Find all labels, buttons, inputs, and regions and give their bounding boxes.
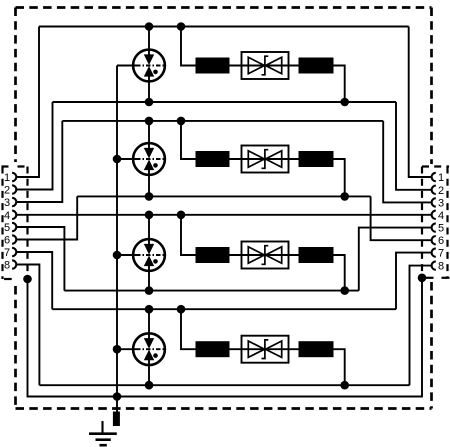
gas discharge tube F3 bottom electrode arrow: [145, 257, 154, 266]
wire: terminal 6 lead: [16, 196, 77, 239]
left terminal block dashed box (left edge): [1, 167, 3, 280]
svg-text:7: 7: [4, 247, 10, 259]
PE terminal (filled): [113, 412, 120, 427]
ground symbol bar 1: [89, 432, 117, 435]
svg-text:2: 2: [4, 185, 10, 197]
wire: terminal 5 lead: [16, 227, 64, 291]
wire: terminal 3' lead: [383, 121, 431, 202]
node: resistor feed junction channel 3: [177, 211, 186, 220]
terminal 3 contact symbol: [12, 198, 16, 206]
gas discharge tube F3 top electrode arrow: [145, 244, 154, 253]
resistor R4b: [299, 341, 334, 357]
node: ground bus / GDT F4 centre: [113, 345, 122, 354]
terminal 3' contact symbol: [432, 198, 436, 206]
node: resistor feed junction channel 1: [177, 22, 186, 31]
svg-text:1: 1: [438, 172, 444, 184]
enclosure dashed border (right edge lower): [430, 282, 433, 409]
node: ground bus / GDT F3 centre: [113, 251, 122, 260]
wire: resistor chain channel 2: [230, 158, 299, 160]
channel 4 bottom rail wire: [39, 384, 409, 386]
channel 4 top rail wire: [52, 308, 396, 310]
gas discharge tube F4 centre electrode line (dash-dot part): [136, 348, 166, 350]
wire: resistor feed drop channel 1: [181, 27, 196, 66]
terminal 7 contact symbol: [12, 248, 16, 256]
suppressor diode V4 box: [242, 336, 289, 363]
wire: GDT F2 vertical (lower): [148, 169, 150, 197]
node: right terminal block shield junction: [418, 274, 427, 283]
suppressor diode V3 centre zener bar: [262, 246, 269, 265]
svg-text:2: 2: [438, 185, 444, 197]
gas discharge tube F1 centre electrode line (dash-dot part): [136, 65, 166, 67]
svg-text:1: 1: [4, 172, 10, 184]
terminal 7' contact symbol: [432, 248, 436, 256]
wire: GDT F1 vertical (lower): [148, 75, 150, 102]
suppressor diode V1 left triangle: [248, 57, 264, 73]
gas discharge tube F2 top electrode arrow: [145, 148, 154, 157]
svg-text:6: 6: [438, 235, 444, 247]
wire: resistor chain channel 3: [230, 254, 299, 256]
enclosure dashed border (left edge upper): [14, 8, 17, 163]
svg-text:3: 3: [4, 197, 10, 209]
svg-text:3: 3: [438, 197, 444, 209]
gas discharge tube F1 top electrode arrow: [145, 55, 154, 64]
svg-text:5: 5: [4, 222, 10, 234]
terminal 2' contact symbol: [432, 186, 436, 194]
right terminal block dashed box (bottom edge, dash 2): [442, 277, 450, 279]
terminal 8' contact symbol: [432, 261, 436, 269]
suppressor diode V2 centre zener bar: [262, 150, 269, 169]
wire: terminal 5' lead: [359, 228, 432, 291]
wire: GDT F3 vertical (upper): [148, 215, 150, 246]
gas discharge tube F3 centre electrode line (dash-dot part): [136, 254, 166, 256]
node: ground bus / GDT F2 centre: [113, 155, 122, 164]
node: GDT F3 bottom junction: [145, 286, 154, 295]
node: resistor output junction channel 4: [340, 381, 349, 390]
wire: resistor feed drop channel 2: [181, 121, 196, 159]
svg-text:8: 8: [4, 260, 10, 272]
wire: terminal 8' lead: [410, 266, 432, 386]
node: resistor output junction channel 2: [340, 192, 349, 201]
resistor R3b: [299, 247, 334, 263]
suppressor diode V3 box: [242, 242, 289, 269]
wire: terminal 2' lead: [396, 102, 432, 190]
suppressor diode V4 right triangle: [266, 341, 282, 357]
node: PE junction: [113, 392, 122, 401]
enclosure dashed border (left edge lower): [14, 286, 17, 409]
svg-text:7: 7: [438, 248, 444, 260]
suppressor diode V3 right triangle: [266, 247, 282, 263]
terminal 5' contact symbol: [432, 223, 436, 231]
wire: GDT F2 vertical (upper): [148, 121, 150, 150]
gas discharge tube F3 spark gap dot: [153, 259, 158, 264]
gas discharge tube F4 top electrode arrow: [145, 339, 154, 348]
gas discharge tube F1 centre electrode line (solid part to bus): [117, 65, 136, 67]
enclosure dashed border (bottom edge): [16, 407, 432, 410]
svg-text:5: 5: [438, 223, 444, 235]
wire: terminal 1' lead: [409, 27, 432, 178]
wire: PE drop: [116, 397, 118, 413]
wire: GDT F4 vertical (upper): [148, 309, 150, 340]
terminal 6 contact symbol: [12, 235, 16, 243]
right terminal block dashed box (right edge): [446, 167, 448, 278]
suppressor diode V1 centre zener bar: [262, 56, 269, 75]
wire: terminal 6' lead: [371, 196, 432, 240]
wire: terminal 3 lead: [16, 121, 62, 202]
gas discharge tube F1 bottom electrode arrow: [145, 67, 154, 76]
wire: resistor feed drop channel 4: [181, 309, 196, 349]
channel 2 bottom rail wire: [77, 195, 370, 197]
node: GDT F1 bottom junction: [145, 98, 154, 107]
gas discharge tube F4 spark gap dot: [153, 353, 158, 358]
channel 2 top rail wire: [62, 120, 383, 122]
node: GDT F1 top junction: [145, 22, 154, 31]
right terminal block dashed box (bottom edge, dash 1): [425, 277, 434, 279]
node: resistor feed junction channel 2: [177, 117, 186, 126]
terminal 1' contact symbol: [432, 173, 436, 181]
wire: GDT F3 vertical (lower): [148, 265, 150, 291]
channel 1 top rail wire: [39, 26, 409, 28]
ground bus vertical wire: [116, 66, 118, 397]
wire: resistor chain channel 1: [230, 65, 299, 67]
wire: GDT F1 vertical (upper): [148, 27, 150, 57]
gas discharge tube F2 (circle): [133, 143, 165, 175]
suppressor diode V2 right triangle: [266, 151, 282, 167]
resistor R3a: [196, 247, 230, 263]
wire: terminal 8 lead: [16, 265, 39, 386]
suppressor diode V4 left triangle: [248, 341, 264, 357]
terminal 4' contact symbol: [432, 211, 436, 219]
wire: terminal 7' lead: [396, 253, 432, 310]
suppressor diode V2 left triangle: [248, 151, 264, 167]
gas discharge tube F4 centre electrode line (solid part to bus): [117, 348, 136, 350]
node: resistor output junction channel 3: [340, 286, 349, 295]
wire: terminal 1 lead: [16, 27, 39, 178]
node: resistor output junction channel 1: [340, 98, 349, 107]
svg-text:8: 8: [438, 261, 444, 273]
node: GDT F4 top junction: [145, 305, 154, 314]
right terminal block dashed box (left edge): [421, 167, 423, 278]
gas discharge tube F2 centre electrode line (solid part to bus): [117, 158, 136, 160]
node: left terminal block shield junction: [23, 275, 32, 284]
channel 3 top rail wire: [16, 214, 431, 216]
node: GDT F4 bottom junction: [145, 381, 154, 390]
resistor R2b: [299, 151, 334, 167]
wire: resistor output channel 3: [334, 255, 345, 291]
wire: resistor feed drop channel 3: [181, 215, 196, 255]
left terminal block dashed box (bottom edge): [4, 278, 12, 280]
wire: terminal 2 lead: [16, 102, 52, 190]
gas discharge tube F1 (circle): [133, 50, 165, 82]
resistor R4a: [196, 341, 230, 357]
wire: resistor output channel 1: [334, 66, 345, 103]
suppressor diode V1 right triangle: [266, 57, 282, 73]
terminal 8 contact symbol: [12, 260, 16, 268]
left terminal block dashed box (right edge): [26, 167, 28, 280]
left terminal block dashed box (top edge): [2, 165, 28, 167]
suppressor diode V2 box: [242, 146, 289, 173]
svg-text:4: 4: [438, 210, 444, 222]
gas discharge tube F2 spark gap dot: [153, 163, 158, 168]
node: resistor feed junction channel 4: [177, 305, 186, 314]
enclosure dashed border (top edge): [16, 6, 432, 9]
gas discharge tube F4 bottom electrode arrow: [145, 351, 154, 360]
channel 1 bottom rail wire: [53, 101, 397, 103]
svg-text:4: 4: [4, 210, 10, 222]
gas discharge tube F1 spark gap dot: [153, 70, 158, 75]
wire: resistor output channel 2: [334, 159, 345, 196]
terminal 2 contact symbol: [12, 185, 16, 193]
terminal 5 contact symbol: [12, 223, 16, 231]
gas discharge tube F2 centre electrode line (dash-dot part): [136, 158, 166, 160]
wire: left shield drop: [28, 278, 423, 397]
svg-text:6: 6: [4, 235, 10, 247]
wire: resistor chain channel 4: [230, 348, 299, 350]
right terminal block dashed box (top edge): [422, 165, 449, 167]
ground symbol bar 3: [100, 444, 107, 447]
ground symbol stem: [101, 421, 103, 434]
node: GDT F2 bottom junction: [145, 192, 154, 201]
resistor R1b: [299, 58, 334, 74]
gas discharge tube F2 bottom electrode arrow: [145, 161, 154, 170]
suppressor diode V4 centre zener bar: [262, 340, 269, 359]
wire: terminal 7 lead: [16, 252, 52, 309]
gas discharge tube F3 (circle): [133, 239, 165, 271]
channel 3 bottom rail wire: [64, 290, 358, 292]
terminal 1 contact symbol: [12, 173, 16, 181]
node: GDT F2 top junction: [145, 117, 154, 126]
terminal 6' contact symbol: [432, 236, 436, 244]
terminal 4 contact symbol: [12, 211, 16, 219]
suppressor diode V1 box: [242, 52, 289, 79]
gas discharge tube F3 centre electrode line (solid part to bus): [117, 254, 136, 256]
wire: GDT F4 vertical (lower): [148, 359, 150, 386]
suppressor diode V3 left triangle: [248, 247, 264, 263]
ground symbol bar 2: [96, 438, 111, 441]
wire: resistor output channel 4: [334, 349, 345, 385]
resistor R2a: [196, 151, 230, 167]
node: GDT F3 top junction: [145, 211, 154, 220]
resistor R1a: [196, 58, 230, 74]
gas discharge tube F4 (circle): [133, 333, 165, 365]
enclosure dashed border (right edge upper): [430, 8, 433, 165]
